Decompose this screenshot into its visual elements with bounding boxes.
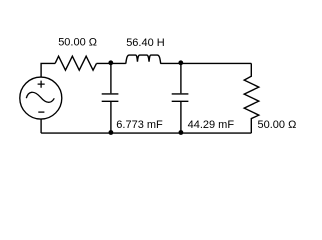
svg-text:44.29 mF: 44.29 mF: [188, 119, 235, 131]
svg-text:6.773 mF: 6.773 mF: [116, 119, 163, 131]
svg-text:50.00 Ω: 50.00 Ω: [58, 37, 97, 49]
svg-text:50.00 Ω: 50.00 Ω: [258, 119, 297, 131]
svg-text:56.40 H: 56.40 H: [126, 37, 165, 49]
